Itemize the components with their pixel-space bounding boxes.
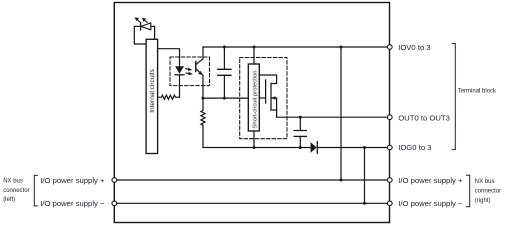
opto light arrow 2 bbox=[186, 72, 193, 75]
internal circuits block bbox=[146, 39, 158, 153]
optocoupler dashed box bbox=[170, 57, 210, 86]
terminal IOG bbox=[387, 145, 392, 150]
wire LED indicator loop bbox=[134, 26, 154, 44]
wire SCP top bbox=[253, 47, 255, 64]
svg-text:IOG0 to 3: IOG0 to 3 bbox=[398, 143, 431, 152]
opto light arrow 1 bbox=[186, 68, 193, 71]
node C1 rail bbox=[223, 46, 226, 49]
svg-text:NX bus: NX bus bbox=[3, 178, 23, 184]
svg-text:OUT0 to OUT3: OUT0 to OUT3 bbox=[398, 113, 450, 122]
I/O power supply minus line bbox=[114, 202, 389, 204]
OUT line bbox=[277, 116, 390, 118]
phototransistor emitter wire bbox=[196, 69, 203, 99]
bracket NX bus right bbox=[466, 175, 470, 207]
wire MOSFET to OUT bbox=[276, 98, 278, 117]
MOSFET Q2 body arrow bbox=[271, 96, 275, 100]
terminal OUT bbox=[387, 115, 392, 120]
MOSFET Q2 drain stub bbox=[271, 109, 277, 111]
opto LED cathode bar bbox=[175, 74, 184, 76]
IOG line right bbox=[317, 147, 389, 149]
svg-text:(right): (right) bbox=[475, 198, 491, 204]
MOSFET Q2 gate wire bbox=[259, 97, 265, 99]
terminal left plus bbox=[112, 178, 117, 183]
svg-text:Short-circuit protection: Short-circuit protection bbox=[253, 71, 259, 129]
capacitor C2 plates bbox=[294, 131, 306, 137]
phototransistor emitter arrow bbox=[198, 71, 203, 75]
terminals bbox=[112, 45, 392, 206]
short-circuit protection block bbox=[248, 64, 259, 131]
svg-text:I/O power supply −: I/O power supply − bbox=[40, 199, 105, 208]
capacitor C2 bottom wire bbox=[299, 136, 301, 147]
MOSFET Q2 channel bbox=[270, 84, 272, 111]
node IOG drop bbox=[363, 146, 366, 149]
terminal IOV bbox=[387, 45, 392, 50]
svg-text:(left): (left) bbox=[3, 197, 15, 203]
resistor R1 bbox=[158, 95, 180, 99]
IOV rail bbox=[203, 46, 390, 48]
short-circuit protection dashed box bbox=[240, 58, 287, 139]
wire R2 to IOG bbox=[203, 125, 311, 147]
LED light arrow 2 bbox=[142, 18, 147, 23]
capacitor C1 top wire bbox=[223, 47, 225, 69]
bracket terminal block bbox=[452, 43, 456, 149]
node plus drop bbox=[340, 179, 343, 182]
junction dots bbox=[202, 46, 367, 205]
node minus drop bbox=[363, 202, 366, 205]
wire IOV to supply plus bbox=[340, 47, 342, 180]
phototransistor collector wire bbox=[196, 47, 203, 65]
MOSFET Q2 source wire bbox=[259, 75, 276, 84]
bracket NX bus left bbox=[34, 175, 38, 206]
node C2 bottom bbox=[299, 146, 302, 149]
resistor R2 bbox=[201, 98, 205, 125]
svg-text:Internal circuits: Internal circuits bbox=[149, 68, 156, 112]
LED light arrow 1 bbox=[135, 17, 140, 22]
node C2 top bbox=[299, 116, 302, 119]
terminal left minus bbox=[112, 201, 117, 206]
wire opto anode top bbox=[158, 49, 180, 67]
opto LED triangle bbox=[175, 66, 184, 74]
svg-text:NX bus: NX bus bbox=[475, 179, 495, 185]
node emitter junction bbox=[202, 97, 205, 100]
I/O power supply plus line bbox=[114, 179, 389, 181]
capacitor C1 bottom wire bbox=[223, 75, 225, 98]
capacitor C2 top wire bbox=[299, 117, 301, 130]
capacitor C1 plates bbox=[218, 69, 231, 75]
LED indicator cathode bar bbox=[140, 23, 142, 30]
diode D1 cathode bar bbox=[316, 142, 318, 153]
svg-text:I/O power supply −: I/O power supply − bbox=[398, 199, 463, 208]
node SCP rail bbox=[253, 46, 256, 49]
brackets bbox=[34, 43, 469, 206]
node C1 bottom bbox=[223, 97, 226, 100]
svg-text:connector: connector bbox=[3, 188, 29, 194]
svg-text:Terminal block: Terminal block bbox=[458, 88, 497, 94]
diode D1 triangle bbox=[311, 142, 317, 152]
outer module box bbox=[114, 3, 389, 223]
MOSFET Q2 body stub bbox=[271, 97, 277, 99]
svg-text:IOV0 to 3: IOV0 to 3 bbox=[398, 43, 430, 52]
wire SCP bottom bbox=[253, 131, 255, 148]
MOSFET Q2 gate bbox=[265, 80, 267, 103]
node SCP IOG bbox=[253, 146, 256, 149]
wire IOG to supply minus bbox=[364, 148, 366, 204]
phototransistor Q1 base bar bbox=[195, 62, 197, 72]
terminal right minus bbox=[387, 201, 392, 206]
svg-text:I/O power supply +: I/O power supply + bbox=[398, 176, 463, 185]
wire opto LED cathode down bbox=[179, 75, 181, 97]
LED indicator triangle bbox=[141, 23, 151, 30]
svg-text:connector: connector bbox=[475, 189, 501, 195]
svg-text:I/O power supply +: I/O power supply + bbox=[40, 176, 105, 185]
node rail drop bbox=[340, 46, 343, 49]
terminal right plus bbox=[387, 178, 392, 183]
wire emitter node line bbox=[203, 97, 248, 99]
